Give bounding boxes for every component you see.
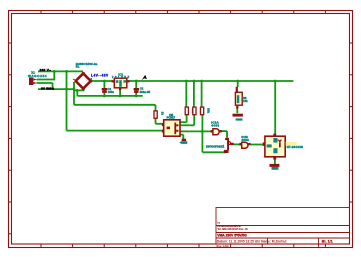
svg-text:4093: 4093 [211, 124, 219, 128]
wire: main +V rail right of regulator [129, 80, 294, 82]
wire: U1 vcc riser [274, 81, 276, 134]
gate IC2B [239, 142, 250, 148]
wire: horizontal to optocoupler cathode [67, 130, 164, 132]
wire: opto emitter to gate1 input [181, 130, 212, 132]
wire: 0V bottom wire [38, 88, 74, 90]
svg-text:NT-2344HR: NT-2344HR [287, 145, 303, 149]
wire: R6 drop [237, 81, 239, 87]
wire: opto emitter gnd path [180, 134, 183, 136]
title block box [216, 208, 350, 248]
wire: to Q1 emitter [202, 151, 225, 153]
gate IC2A [211, 129, 222, 135]
svg-text:WAGO254: WAGO254 [28, 74, 47, 78]
title block text [217, 221, 333, 248]
resistor R4 [193, 107, 196, 115]
ground below optocoupler [182, 139, 186, 141]
wire: V2 from bridge AC2 down [73, 82, 75, 105]
resistor R6 (box with fill) [235, 87, 242, 109]
svg-text:100u: 100u [108, 90, 114, 94]
wire: V3 down to gnd rail [76, 90, 78, 96]
svg-text:10k: 10k [243, 99, 248, 103]
svg-text:Tel. 089-43612345 Fax -46: Tel. 089-43612345 Fax -46 [217, 227, 248, 231]
capacitor C1 [102, 88, 108, 93]
optocoupler OK1 [162, 120, 181, 136]
svg-text:L4V--48V: L4V--48V [91, 73, 109, 77]
IC U1 [263, 134, 285, 160]
frame ticks top [41, 11, 325, 15]
wire: 230V top wire to bridge AC1 [38, 70, 83, 72]
wire: V1 long vertical to optocoupler row [66, 71, 68, 130]
U1 right yellow label [286, 142, 297, 146]
wire: R5 drop [201, 81, 203, 107]
svg-text:PC817: PC817 [167, 116, 176, 120]
wire: R6 bottom stub [236, 108, 238, 113]
svg-text:230 V~: 230 V~ [40, 68, 52, 72]
voltage regulator IC1 [112, 78, 130, 90]
svg-text:1k: 1k [161, 112, 165, 116]
frame ticks left [9, 43, 13, 234]
wire: connector pin1 to riser [37, 79, 55, 81]
wire: gate2 out to U1 [250, 144, 263, 146]
svg-text:330n-35: 330n-35 [140, 90, 151, 94]
wire: R5 bottom long drop [201, 115, 203, 153]
wire: bridge minus stub wire [74, 89, 84, 91]
frame ticks right [349, 43, 353, 202]
wire: main +V rail left of regulator [91, 80, 113, 82]
svg-text:Datum: 11.11.2005 13:25 Uhr N: Datum: 11.11.2005 13:25 Uhr Name: M.Zier… [217, 239, 287, 243]
wire: R2 bottom to opto anode [155, 118, 157, 124]
svg-text:zerocross1: zerocross1 [206, 145, 224, 149]
svg-text:78L05Z: 78L05Z [112, 75, 130, 79]
net flag arrow +5V [142, 75, 148, 80]
resistor R2 [154, 111, 157, 118]
wire: pin2 riser down [52, 83, 54, 89]
wire: connector pin2 [37, 82, 53, 84]
wire: R4 drop [193, 81, 195, 107]
wire: feed to R2 [74, 104, 156, 106]
node: junction V1 top [65, 70, 68, 73]
wire: gate1 output to Q1 top [221, 130, 227, 132]
wire: C1 riser [103, 81, 105, 96]
node: junction V2 x bottom wire [73, 88, 76, 91]
capacitor C2 [134, 88, 139, 93]
svg-text:Bl. 1/1: Bl. 1/1 [322, 240, 333, 244]
resistor R5 [201, 107, 204, 115]
node: junction V3 top [76, 89, 79, 92]
wire: gnd rail under regulator [77, 95, 142, 97]
wire: regulator gnd riser [119, 90, 121, 96]
ground below U1 [270, 164, 280, 167]
node: junction pin1 riser on top wire [53, 70, 56, 73]
bridge plus mark [91, 78, 92, 80]
ground below R6 [233, 114, 243, 117]
wire: R2 top corner [155, 105, 157, 111]
svg-text:0V 50Hz: 0V 50Hz [41, 86, 55, 90]
wire: R3 bottom to opto collector [186, 115, 188, 122]
frame ticks bottom [41, 244, 325, 248]
svg-text:Rev. 1.02c: Rev. 1.02c [217, 244, 230, 248]
wire: R3 drop [185, 81, 187, 107]
svg-text:4093: 4093 [241, 138, 249, 142]
wire: U1 gnd stub [274, 159, 276, 164]
node: junction V1 x bottom wire [65, 88, 68, 91]
bridge minus mark [73, 79, 75, 80]
connector X1 [29, 78, 37, 86]
wire: C2 riser [135, 81, 137, 96]
wire: pin1 riser [53, 71, 55, 79]
svg-text:VMA 230V 5*5V/5G: VMA 230V 5*5V/5G [217, 234, 247, 238]
transistor Q1 [224, 138, 234, 153]
svg-text:B1: B1 [76, 65, 80, 69]
resistor R3 [185, 107, 188, 115]
bridge rectifier B1 [76, 73, 91, 88]
wire: R4 bottom to opto base [193, 115, 195, 126]
svg-text:33k: 33k [207, 108, 211, 113]
wire: Q1 out to gate2 [233, 143, 240, 145]
